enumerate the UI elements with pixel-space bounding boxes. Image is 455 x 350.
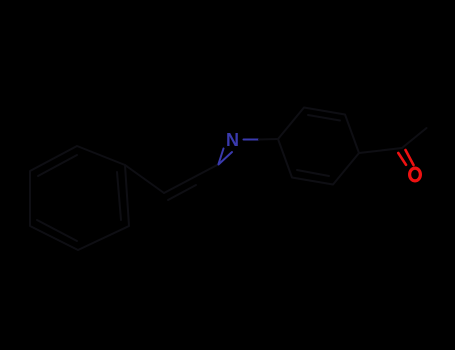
N-ring bond (blue half) xyxy=(244,139,260,141)
O label xyxy=(410,168,421,181)
bond ring-carbonyl C xyxy=(359,148,402,153)
svg-text:N: N xyxy=(226,130,239,150)
ring inner double bond bottom edge xyxy=(297,170,329,176)
ring inner double bond left-top edge xyxy=(38,155,77,176)
N-ring bond (white half) xyxy=(259,138,278,141)
left phenyl ring xyxy=(30,146,129,250)
bond C-CH3 xyxy=(402,128,427,148)
C=O double bond xyxy=(406,150,414,165)
C1=N double bond xyxy=(219,152,233,165)
ring inner double bond bottom-left edge xyxy=(37,220,77,241)
ring inner double bond top edge xyxy=(308,115,340,121)
chain C3 to C1 main line xyxy=(164,164,219,193)
right benzene ring xyxy=(278,108,359,185)
ring inner double bond right edge xyxy=(117,172,121,220)
bond ring-C3 xyxy=(125,165,164,193)
C3=C2 double bond partner xyxy=(168,185,196,200)
